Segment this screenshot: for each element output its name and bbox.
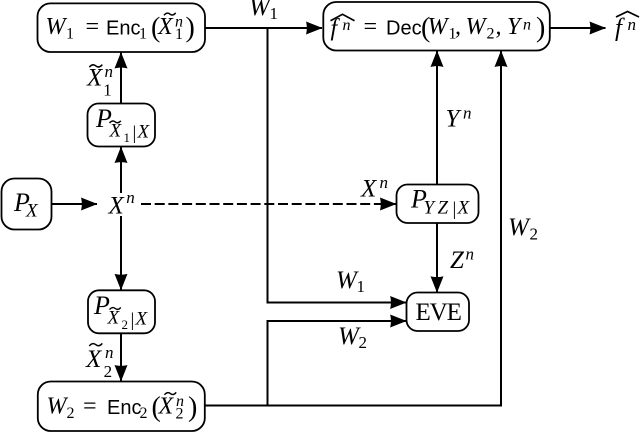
- svg-text:X: X: [85, 346, 103, 373]
- svg-text:Z: Z: [438, 198, 449, 219]
- svg-text:n: n: [466, 245, 475, 264]
- svg-text:2: 2: [122, 317, 129, 332]
- svg-text:W: W: [47, 394, 69, 420]
- svg-text:1: 1: [175, 26, 183, 43]
- svg-text:n: n: [463, 104, 472, 123]
- svg-text:|: |: [453, 199, 457, 220]
- svg-text:f: f: [615, 15, 625, 42]
- svg-text:X: X: [137, 122, 151, 143]
- svg-text:1: 1: [66, 26, 74, 43]
- svg-text:,: ,: [455, 14, 461, 40]
- svg-text:1: 1: [357, 277, 366, 296]
- svg-text:X: X: [457, 198, 471, 219]
- svg-text:X: X: [107, 308, 121, 329]
- svg-text:n: n: [105, 62, 114, 81]
- svg-text:X: X: [157, 14, 174, 40]
- svg-text:Dec: Dec: [386, 18, 422, 40]
- svg-text:X: X: [109, 121, 123, 142]
- svg-text:): ): [188, 392, 197, 423]
- svg-text:W: W: [466, 14, 488, 40]
- svg-text:Y: Y: [446, 106, 463, 133]
- svg-text:=: =: [84, 14, 100, 40]
- svg-text:X: X: [360, 176, 378, 203]
- svg-text:|: |: [133, 123, 137, 144]
- svg-text:Enc: Enc: [107, 397, 141, 419]
- svg-text:1: 1: [139, 26, 147, 43]
- svg-text:): ): [536, 13, 545, 44]
- svg-text:1: 1: [103, 81, 112, 100]
- svg-text:2: 2: [104, 362, 113, 381]
- svg-text:Enc: Enc: [106, 18, 140, 40]
- svg-text:n: n: [628, 15, 637, 34]
- svg-text:1: 1: [270, 4, 279, 23]
- svg-text:,: ,: [496, 14, 502, 40]
- svg-text:EVE: EVE: [416, 299, 462, 326]
- svg-text:n: n: [523, 17, 531, 34]
- svg-text:2: 2: [487, 26, 495, 43]
- svg-text:2: 2: [176, 406, 184, 423]
- svg-text:): ): [186, 13, 195, 44]
- svg-text:W: W: [428, 14, 450, 40]
- svg-text:X: X: [108, 193, 126, 220]
- svg-text:n: n: [380, 173, 389, 192]
- svg-text:W: W: [46, 14, 68, 40]
- svg-text:Z: Z: [450, 247, 465, 274]
- svg-text:1: 1: [124, 130, 131, 145]
- svg-text:X: X: [158, 394, 175, 420]
- svg-text:n: n: [343, 17, 351, 34]
- svg-text:=: =: [362, 14, 378, 40]
- svg-text:2: 2: [67, 405, 75, 422]
- svg-text:X: X: [135, 309, 149, 330]
- svg-text:n: n: [126, 188, 135, 207]
- svg-text:W: W: [508, 214, 531, 241]
- svg-text:n: n: [105, 343, 114, 362]
- svg-text:2: 2: [140, 405, 148, 422]
- svg-text:X: X: [25, 201, 39, 222]
- svg-text:=: =: [82, 394, 98, 420]
- svg-text:2: 2: [530, 225, 539, 244]
- svg-text:|: |: [131, 310, 135, 331]
- svg-text:X: X: [86, 65, 104, 92]
- svg-text:2: 2: [359, 333, 368, 352]
